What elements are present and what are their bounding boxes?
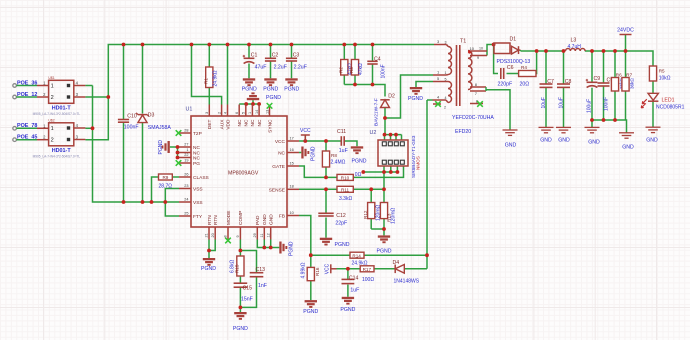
svg-text:1: 1 xyxy=(248,112,252,114)
capacitor C5 xyxy=(598,78,614,112)
svg-text:EFD20: EFD20 xyxy=(455,129,471,135)
svg-text:27: 27 xyxy=(184,142,188,146)
svg-text:15nF: 15nF xyxy=(241,297,253,303)
wire C3 branch xyxy=(291,45,293,79)
junction dots output gnd tie xyxy=(590,118,617,122)
svg-text:1uF: 1uF xyxy=(339,148,348,154)
junction dots VCC net xyxy=(303,139,328,143)
svg-text:17: 17 xyxy=(290,136,294,140)
wire R2 branch xyxy=(343,45,345,85)
inductor L3 xyxy=(566,38,586,52)
junction dots RTN bus xyxy=(122,200,168,204)
svg-text:10uF: 10uF xyxy=(541,97,547,108)
power PGND (NC16) xyxy=(301,146,316,161)
svg-text:8: 8 xyxy=(224,235,228,237)
svg-text:100uF: 100uF xyxy=(586,99,592,113)
svg-text:NC: NC xyxy=(193,145,200,151)
wire secondary to D1 xyxy=(487,45,494,56)
resistor R17 xyxy=(360,266,374,283)
svg-text:D4: D4 xyxy=(393,260,400,266)
power PGND (PAD) xyxy=(279,241,294,256)
svg-text:D1: D1 xyxy=(510,37,517,43)
svg-text:NCD0805R1: NCD0805R1 xyxy=(656,105,685,111)
svg-text:PAD: PAD xyxy=(255,215,261,225)
wire R16 to PGND xyxy=(310,281,312,300)
wire D1 snubber xyxy=(494,45,537,74)
svg-text:2: 2 xyxy=(51,95,54,101)
svg-text:2.2uF: 2.2uF xyxy=(274,64,287,70)
wire source to shunt xyxy=(383,172,385,203)
svg-text:23: 23 xyxy=(184,184,188,188)
power PGND (R16) xyxy=(303,300,318,315)
svg-text:PGND: PGND xyxy=(408,96,423,102)
junction dots NC top tie xyxy=(244,102,261,106)
IC U1 MP8009AGV xyxy=(179,105,299,240)
wire conn1 pin4 to RTN xyxy=(85,85,92,87)
junction dots U2 drain tie xyxy=(383,133,398,137)
power GND (C7) xyxy=(539,127,554,143)
svg-text:5: 5 xyxy=(445,78,447,82)
svg-text:PGND: PGND xyxy=(242,87,257,93)
capacitor C2 xyxy=(265,52,287,70)
svg-text:RTN: RTN xyxy=(207,215,213,225)
junction dots COMP/RTN xyxy=(207,249,242,310)
svg-text:2.4MΩ: 2.4MΩ xyxy=(331,160,346,166)
svg-text:21: 21 xyxy=(205,233,209,237)
svg-text:COMP: COMP xyxy=(238,211,244,225)
svg-text:C4: C4 xyxy=(374,56,381,62)
wire clamp node xyxy=(344,85,385,97)
svg-text:GND: GND xyxy=(269,214,275,225)
capacitor C8 xyxy=(557,79,572,109)
svg-text:PGND: PGND xyxy=(201,266,216,272)
wire C15 bottom xyxy=(239,287,241,312)
junction dots SENSE net xyxy=(324,187,386,191)
svg-text:220pF: 220pF xyxy=(498,82,513,88)
diode D4 1N4148WS xyxy=(393,260,420,285)
svg-text:100nF: 100nF xyxy=(124,125,139,131)
wire T1 pin7/8 to GND xyxy=(486,90,510,130)
wire conn2 pin4 to RTN xyxy=(85,127,92,129)
svg-text:PGND: PGND xyxy=(233,326,248,332)
svg-text:NC: NC xyxy=(278,151,285,157)
wire T1 pin10/9 stub join xyxy=(486,50,487,52)
wire C10 branch xyxy=(123,45,125,203)
svg-text:C9: C9 xyxy=(594,76,601,82)
no-connect X PG xyxy=(176,160,182,166)
svg-text:9: 9 xyxy=(477,56,479,60)
wire C2 branch xyxy=(270,45,272,79)
wire R5 to LED xyxy=(652,81,654,93)
capacitor C4 xyxy=(367,56,386,78)
svg-text:GND: GND xyxy=(558,138,570,144)
no-connect X T1 pin2 xyxy=(435,101,441,107)
svg-text:R3: R3 xyxy=(349,67,354,73)
svg-text:13: 13 xyxy=(265,110,269,114)
wire conn1 pin3 to VIN xyxy=(85,96,108,98)
wire C9 gnd stem xyxy=(591,120,593,127)
svg-text:MP8009AGV: MP8009AGV xyxy=(228,171,259,177)
wire R6 branch xyxy=(614,51,616,120)
svg-text:6: 6 xyxy=(235,112,239,114)
svg-text:C11: C11 xyxy=(337,129,346,135)
svg-text:VCC: VCC xyxy=(275,139,286,145)
net label POE_36 xyxy=(13,80,49,87)
wire 24VDC supply stem xyxy=(625,35,627,52)
svg-text:29: 29 xyxy=(253,233,257,237)
svg-text:1uF: 1uF xyxy=(350,288,359,294)
power GND (T1 pin7) xyxy=(503,130,518,149)
power GND (output tie) xyxy=(619,133,634,151)
svg-text:GND: GND xyxy=(646,138,658,144)
resistor R11 xyxy=(337,186,353,202)
svg-text:R16: R16 xyxy=(315,267,320,276)
wire T1 pin 5 to PGND xyxy=(416,82,433,88)
svg-text:VSS: VSS xyxy=(193,187,203,193)
svg-text:PGND: PGND xyxy=(340,307,355,313)
resistor R13 xyxy=(380,203,396,225)
power GND (LED1) xyxy=(646,127,661,143)
svg-text:1N4148WS: 1N4148WS xyxy=(394,279,420,285)
svg-text:M905_LA-7-W4-3*2-504/S7.0=TL: M905_LA-7-W4-3*2-504/S7.0=TL xyxy=(33,154,81,158)
connector U$2 HD01-T xyxy=(33,118,86,158)
wire RTN pins tie xyxy=(209,240,215,259)
svg-text:PGND: PGND xyxy=(311,146,317,161)
junction dots FB net xyxy=(309,253,429,270)
resistor R16 xyxy=(300,262,320,280)
wire C5 branch xyxy=(603,51,605,120)
svg-text:LED1: LED1 xyxy=(662,98,675,104)
svg-text:26: 26 xyxy=(184,172,188,176)
diode D2 xyxy=(373,93,395,126)
capacitor C9 xyxy=(586,76,601,113)
svg-text:PGND: PGND xyxy=(284,87,299,93)
svg-text:NC: NC xyxy=(257,119,263,126)
svg-text:C12: C12 xyxy=(336,213,346,219)
svg-text:47uF: 47uF xyxy=(255,64,267,70)
svg-text:GND: GND xyxy=(622,145,634,151)
diode D1 PDS3100Q-13 xyxy=(494,37,530,66)
wire C1 branch xyxy=(248,45,250,79)
svg-text:9: 9 xyxy=(236,235,240,237)
svg-text:C14: C14 xyxy=(349,275,359,281)
svg-text:R2: R2 xyxy=(339,67,344,73)
wire FB to R14 xyxy=(311,254,427,256)
svg-text:24.9kΩ: 24.9kΩ xyxy=(213,70,219,86)
svg-text:3: 3 xyxy=(445,41,447,45)
wire R17 to D4 xyxy=(374,268,395,270)
wire R7 branch xyxy=(625,51,627,120)
wire VCC to R17 xyxy=(337,268,361,270)
svg-text:10kΩ: 10kΩ xyxy=(659,76,671,82)
svg-text:CLASS: CLASS xyxy=(193,175,209,181)
svg-text:28.7Ω: 28.7Ω xyxy=(159,183,173,189)
wire AUX elbow xyxy=(192,45,222,105)
svg-text:3.3kΩ: 3.3kΩ xyxy=(339,196,352,202)
svg-text:18: 18 xyxy=(290,185,294,189)
wire output gnd tie xyxy=(592,120,627,133)
resistor R14 xyxy=(350,252,368,266)
svg-text:C1: C1 xyxy=(251,52,258,58)
power VCC (pin17) xyxy=(300,128,311,141)
svg-text:NMOS: NMOS xyxy=(415,156,420,170)
svg-text:C15: C15 xyxy=(243,286,253,292)
svg-text:GND: GND xyxy=(540,138,552,144)
svg-text:POE_78: POE_78 xyxy=(17,123,37,129)
svg-text:1: 1 xyxy=(445,71,447,75)
svg-text:POE_45: POE_45 xyxy=(17,135,37,141)
svg-text:NC: NC xyxy=(244,119,250,126)
resistor R8 xyxy=(322,151,345,167)
svg-text:U1: U1 xyxy=(186,107,193,113)
net label POE_45 xyxy=(13,135,49,142)
svg-text:RTN: RTN xyxy=(213,215,219,225)
svg-text:C7: C7 xyxy=(547,79,554,85)
svg-text:0Ω: 0Ω xyxy=(355,172,362,178)
wire D3 branch xyxy=(142,45,144,203)
resistor R6 xyxy=(611,73,623,92)
svg-text:4: 4 xyxy=(445,96,447,100)
no-connect X MODE xyxy=(225,238,231,244)
no-connect X SYNC xyxy=(267,103,273,109)
svg-text:6.8kΩ: 6.8kΩ xyxy=(229,260,235,273)
svg-text:R4: R4 xyxy=(521,65,527,70)
svg-text:NC: NC xyxy=(250,119,256,126)
svg-text:PGND: PGND xyxy=(303,309,318,315)
resistor R4 xyxy=(519,65,536,88)
junction dots U2 source tie xyxy=(361,170,399,174)
svg-text:24VDC: 24VDC xyxy=(617,28,634,34)
wire T1 pin4 to aux xyxy=(427,99,433,101)
power PGND (T1 pin5) xyxy=(408,87,423,102)
capacitor C3 xyxy=(286,52,307,70)
svg-text:10uF: 10uF xyxy=(558,97,564,108)
svg-text:U$2: U$2 xyxy=(48,118,54,122)
svg-text:C3: C3 xyxy=(293,52,300,58)
power PGND (C2) xyxy=(263,78,278,92)
svg-text:R1: R1 xyxy=(204,78,209,84)
svg-text:VDD: VDD xyxy=(225,119,231,130)
svg-text:PGND: PGND xyxy=(335,242,350,248)
svg-text:15: 15 xyxy=(290,161,294,165)
svg-text:C10: C10 xyxy=(127,113,137,119)
wire C8 branch xyxy=(563,51,565,127)
wire C12 branch xyxy=(325,189,327,237)
wire D2 anode to switch node xyxy=(384,108,386,135)
svg-text:20: 20 xyxy=(211,233,215,237)
svg-text:24: 24 xyxy=(184,197,188,201)
resistor R9 xyxy=(159,174,173,189)
wire R8 branch xyxy=(325,141,327,177)
svg-text:PGND: PGND xyxy=(377,248,392,254)
svg-text:PGND: PGND xyxy=(352,159,367,165)
resistor R12 xyxy=(363,203,382,222)
svg-text:POE_36: POE_36 xyxy=(17,80,37,86)
svg-text:GND: GND xyxy=(588,140,600,146)
wire R12 branch xyxy=(370,189,372,229)
wire C4 branch xyxy=(372,45,374,85)
svg-text:2.2uF: 2.2uF xyxy=(294,64,307,70)
svg-text:BAV21W-7-F: BAV21W-7-F xyxy=(373,98,379,126)
wire C14 branch xyxy=(347,269,349,297)
capacitor C1 xyxy=(243,52,267,70)
svg-text:22: 22 xyxy=(184,153,188,157)
svg-text:PGND: PGND xyxy=(266,95,281,101)
power PGND (C15) xyxy=(233,312,248,332)
no-connect X T2P xyxy=(176,130,182,136)
svg-text:R6: R6 xyxy=(616,73,622,78)
svg-text:R12: R12 xyxy=(363,210,368,219)
power PGND (U1 NC top) xyxy=(247,92,281,101)
wire U2 source pins xyxy=(384,166,397,172)
power GND (C8) xyxy=(556,127,571,143)
junction dots PAD tie xyxy=(262,246,272,250)
wire SENSE net xyxy=(299,188,384,190)
wire VSS23-FTY tie xyxy=(165,189,179,217)
svg-text:GND: GND xyxy=(505,143,517,149)
wire R3 branch xyxy=(354,45,356,85)
connector U$1 HD01-T xyxy=(33,76,86,116)
LED LED1 xyxy=(641,93,684,110)
wire COMP net xyxy=(240,240,256,284)
junction dots D1 node xyxy=(492,43,539,53)
svg-text:36kΩ: 36kΩ xyxy=(629,78,634,89)
resistor R15 xyxy=(229,256,244,276)
transformer T1 EFD20 xyxy=(433,39,495,136)
svg-text:MODE: MODE xyxy=(226,211,232,225)
svg-text:U$1: U$1 xyxy=(48,76,54,80)
power PGND (C1) xyxy=(242,78,257,92)
wire VCC supply stem xyxy=(304,136,306,142)
svg-text:L3: L3 xyxy=(571,38,577,44)
svg-text:10: 10 xyxy=(479,47,483,51)
wire U2 drain tie xyxy=(385,135,402,140)
svg-text:14: 14 xyxy=(255,110,259,114)
svg-text:NC: NC xyxy=(237,119,243,126)
svg-text:DET: DET xyxy=(207,119,213,129)
junction dots clamp node xyxy=(353,83,374,87)
capacitor C7 xyxy=(540,79,555,109)
svg-text:GND: GND xyxy=(262,214,268,225)
svg-text:POE_12: POE_12 xyxy=(17,92,37,98)
wire C7 branch xyxy=(545,51,547,127)
svg-text:12: 12 xyxy=(266,233,270,237)
svg-text:100nF: 100nF xyxy=(603,97,609,111)
svg-text:22pF: 22pF xyxy=(335,220,347,226)
svg-text:C2: C2 xyxy=(272,52,279,58)
wire shunt gnd tie xyxy=(371,229,384,235)
no-connect X T1 pin8 xyxy=(477,101,483,107)
svg-text:2: 2 xyxy=(51,138,54,144)
svg-text:T1: T1 xyxy=(460,39,466,45)
wire source tie (U2) xyxy=(363,171,397,173)
svg-text:10: 10 xyxy=(290,211,294,215)
wire switch node to T1 pin 1 xyxy=(385,75,433,118)
svg-text:SYNC: SYNC xyxy=(267,119,273,133)
power PGND (C3) xyxy=(284,78,299,92)
svg-text:FB: FB xyxy=(279,214,285,220)
svg-text:2: 2 xyxy=(217,112,221,114)
junction dots 24V rail xyxy=(544,49,627,53)
junction dot conn1 pin3 xyxy=(106,95,110,99)
wire VDD branch xyxy=(227,45,229,105)
resistor R3 xyxy=(349,60,364,76)
power PGND (C12) xyxy=(320,238,350,248)
capacitor C12 xyxy=(318,213,347,226)
power VCC (bias) xyxy=(324,263,336,274)
svg-text:VCC: VCC xyxy=(300,128,311,134)
svg-text:16: 16 xyxy=(290,148,294,152)
svg-text:1: 1 xyxy=(186,148,188,152)
wire 24V rail xyxy=(521,51,654,66)
power +24VDC xyxy=(617,28,634,35)
svg-text:5: 5 xyxy=(242,112,246,114)
svg-text:25: 25 xyxy=(184,211,188,215)
wire conn2 pin3 to VIN xyxy=(85,97,108,140)
svg-text:R9: R9 xyxy=(162,175,168,180)
resistor R5 xyxy=(649,66,670,82)
svg-text:C8: C8 xyxy=(565,79,572,85)
svg-text:C6: C6 xyxy=(507,65,514,71)
capacitor C11 xyxy=(337,129,348,154)
svg-text:4: 4 xyxy=(223,112,227,114)
svg-text:AUX: AUX xyxy=(219,119,225,130)
junction dot GATE/R8 xyxy=(324,176,328,180)
svg-text:VCC: VCC xyxy=(324,263,330,274)
power PGND (shunts) xyxy=(377,235,392,254)
capacitor C10 xyxy=(118,113,139,130)
wire R13 bottom xyxy=(383,219,385,229)
TVS diode D3 xyxy=(136,113,171,132)
svg-text:SMAJ58A: SMAJ58A xyxy=(148,125,172,131)
svg-text:R14: R14 xyxy=(352,253,361,258)
svg-text:R11: R11 xyxy=(341,188,350,193)
svg-text:M905_LA-7-W4-3*2-504/S7.0=TL: M905_LA-7-W4-3*2-504/S7.0=TL xyxy=(33,112,81,116)
svg-text:FTY: FTY xyxy=(193,214,203,220)
svg-text:R8: R8 xyxy=(331,153,337,158)
power PGND (U1 NC pins) xyxy=(158,140,170,155)
power GND (C9) xyxy=(585,127,601,145)
svg-text:PG: PG xyxy=(193,161,200,167)
svg-text:4.7uH: 4.7uH xyxy=(568,44,582,50)
svg-text:NC: NC xyxy=(193,156,200,162)
junction dots VIN bus xyxy=(122,43,375,47)
svg-text:HD01-T: HD01-T xyxy=(52,148,72,154)
svg-text:GATE: GATE xyxy=(272,164,285,170)
svg-text:R10: R10 xyxy=(341,176,350,181)
svg-text:20Ω: 20Ω xyxy=(520,82,530,88)
svg-text:YEFD20C-70UHA: YEFD20C-70UHA xyxy=(452,115,494,121)
svg-text:PGND: PGND xyxy=(263,87,278,93)
junction dots NC tie xyxy=(176,145,180,159)
svg-text:1: 1 xyxy=(51,84,54,90)
svg-text:1: 1 xyxy=(51,126,54,132)
net label POE_12 xyxy=(13,92,49,99)
svg-text:47kΩ: 47kΩ xyxy=(358,63,364,75)
svg-text:19: 19 xyxy=(184,158,188,162)
resistor R10 xyxy=(337,172,362,181)
svg-text:R17: R17 xyxy=(363,267,372,272)
svg-text:HD01-T: HD01-T xyxy=(52,106,72,112)
wire RTN bottom bus xyxy=(93,86,180,203)
wire NC pins tie (U1 left) xyxy=(170,147,179,158)
svg-text:D3: D3 xyxy=(148,113,155,119)
wire LED to GND xyxy=(652,102,654,128)
svg-text:PGND: PGND xyxy=(289,241,295,256)
svg-text:T2P: T2P xyxy=(193,131,202,137)
wire R9 to CLASS xyxy=(152,177,180,202)
svg-text:2: 2 xyxy=(444,106,446,110)
